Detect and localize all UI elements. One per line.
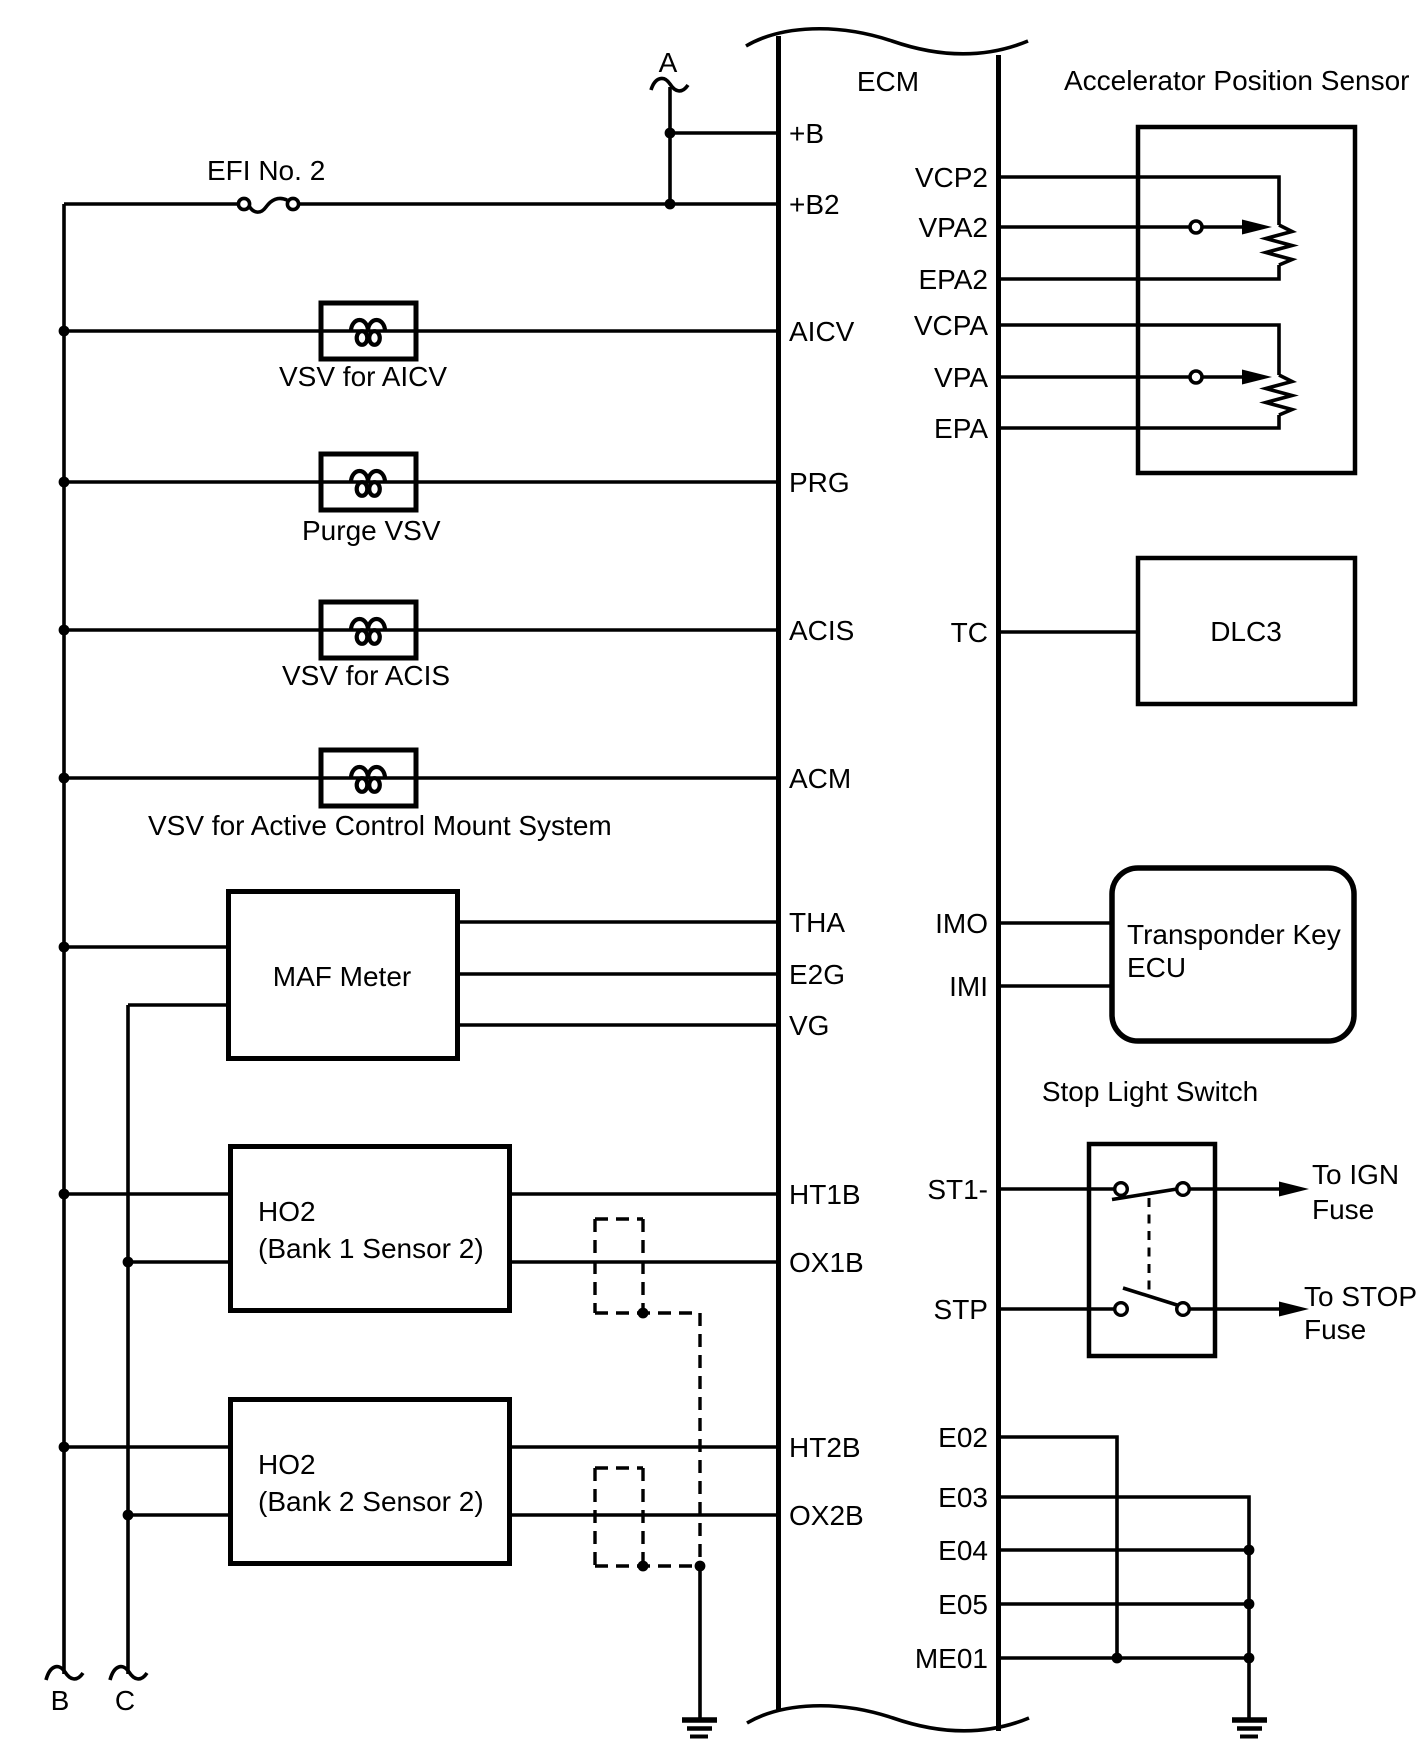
- svg-text:ACM: ACM: [789, 763, 851, 794]
- junction on bus B at ACIS: [59, 625, 70, 636]
- fuse EFI No. 2: [238, 198, 249, 209]
- wire E05: [998, 1602, 1249, 1606]
- wire VG: [458, 1023, 779, 1027]
- junction on bus B at HT2B: [59, 1442, 70, 1453]
- switch contact ST1- right: [1177, 1183, 1190, 1196]
- junction ME01-E03: [1244, 1653, 1255, 1664]
- wire from node A down to +B2: [668, 87, 672, 204]
- potentiometer APS1 resistor: [1266, 375, 1292, 415]
- svg-text:Fuse: Fuse: [1312, 1194, 1374, 1225]
- svg-text:E2G: E2G: [789, 959, 845, 990]
- svg-text:VSV for ACIS: VSV for ACIS: [282, 660, 450, 691]
- wire OX1B to ECM: [510, 1260, 779, 1264]
- wire shield drain to ground: [698, 1566, 702, 1718]
- svg-text:OX2B: OX2B: [789, 1500, 864, 1531]
- wire VPA2 wiper: [998, 225, 1190, 229]
- svg-text:VCPA: VCPA: [914, 310, 988, 341]
- svg-text:ECU: ECU: [1127, 952, 1186, 983]
- wire to IGN fuse with arrow: [1190, 1187, 1280, 1191]
- svg-text:THA: THA: [789, 907, 845, 938]
- junction on bus B at HT1B: [59, 1189, 70, 1200]
- wire OX2B to ECM: [510, 1513, 779, 1517]
- svg-text:E03: E03: [938, 1482, 988, 1513]
- ECM right border line: [996, 55, 1001, 1731]
- switch contact ST1- left: [1115, 1183, 1128, 1196]
- potentiometer APS2 resistor: [1266, 225, 1292, 265]
- Purge VSV solenoid V2: [321, 454, 416, 510]
- svg-text:Fuse: Fuse: [1304, 1314, 1366, 1345]
- junction at +B: [665, 128, 676, 139]
- wire ACM: [64, 776, 779, 780]
- wire THA: [458, 920, 779, 924]
- wire MAF ground to bus C: [128, 1003, 228, 1007]
- svg-text:ECM: ECM: [857, 66, 919, 97]
- svg-text:+B2: +B2: [789, 189, 840, 220]
- wire VCPA: [998, 325, 1279, 375]
- node B break squiggle: [46, 1667, 83, 1680]
- ECM torn bottom edge wave: [747, 1706, 1029, 1731]
- svg-text:HT1B: HT1B: [789, 1179, 861, 1210]
- wire EPA2: [998, 265, 1279, 279]
- wire OX2B from bus C: [128, 1513, 230, 1517]
- svg-text:VPA2: VPA2: [918, 212, 988, 243]
- ECM left border line: [776, 36, 781, 1710]
- VSV for Active Control Mount System solenoid V4: [321, 750, 416, 806]
- svg-text:IMO: IMO: [935, 908, 988, 939]
- svg-text:VCP2: VCP2: [915, 162, 988, 193]
- svg-text:VG: VG: [789, 1010, 829, 1041]
- svg-text:HT2B: HT2B: [789, 1432, 861, 1463]
- wire E03: [998, 1497, 1249, 1718]
- svg-text:(Bank 2 Sensor 2): (Bank 2 Sensor 2): [258, 1486, 484, 1517]
- junction on bus B at MAF: [59, 942, 70, 953]
- svg-text:B: B: [51, 1685, 70, 1716]
- junction shield 2: [638, 1561, 649, 1572]
- wire +B2: [64, 202, 238, 206]
- wire HT2B from bus B: [64, 1445, 230, 1449]
- svg-text:MAF Meter: MAF Meter: [273, 961, 411, 992]
- wire to STOP fuse with arrow: [1190, 1307, 1280, 1311]
- junction at +B2: [665, 199, 676, 210]
- VSV for ACIS solenoid V3: [321, 602, 416, 658]
- svg-text:HO2: HO2: [258, 1449, 316, 1480]
- wire TC: [998, 630, 1138, 634]
- wire OX1B from bus C: [128, 1260, 230, 1264]
- wire EPA: [998, 415, 1279, 428]
- junction on bus B at ACM: [59, 773, 70, 784]
- svg-text:E04: E04: [938, 1535, 988, 1566]
- junction on bus C at OX2B: [123, 1510, 134, 1521]
- svg-text:VPA: VPA: [934, 362, 988, 393]
- ground for shields: [682, 1717, 717, 1723]
- svg-text:Stop Light Switch: Stop Light Switch: [1042, 1076, 1258, 1107]
- wire ST1-: [998, 1187, 1114, 1191]
- wire AICV: [64, 329, 779, 333]
- wire VCP2: [998, 177, 1279, 225]
- svg-text:+B: +B: [789, 118, 824, 149]
- svg-text:To STOP: To STOP: [1304, 1281, 1417, 1312]
- svg-text:(Bank 1 Sensor 2): (Bank 1 Sensor 2): [258, 1233, 484, 1264]
- svg-text:VSV for Active Control Mount S: VSV for Active Control Mount System: [148, 810, 612, 841]
- svg-text:Purge VSV: Purge VSV: [302, 515, 441, 546]
- wire bus C: [126, 1005, 130, 1674]
- junction E05: [1244, 1599, 1255, 1610]
- Transponder Key ECU box: [1112, 868, 1354, 1041]
- svg-text:A: A: [659, 47, 678, 78]
- wiper contact APS1: [1190, 371, 1202, 383]
- svg-text:Accelerator Position Sensor: Accelerator Position Sensor: [1064, 65, 1410, 96]
- VSV for AICV solenoid V1: [321, 303, 416, 359]
- shield drain dashed link: [698, 1313, 701, 1566]
- ground for ECM E lines: [1232, 1717, 1267, 1723]
- svg-text:OX1B: OX1B: [789, 1247, 864, 1278]
- svg-text:E05: E05: [938, 1589, 988, 1620]
- wire HT1B from bus B: [64, 1192, 230, 1196]
- wire left bus B: [62, 204, 66, 1674]
- wire VPA wiper: [998, 375, 1190, 379]
- MAF Meter box: [229, 892, 458, 1059]
- junction E04: [1244, 1545, 1255, 1556]
- switch link (dashed): [1148, 1198, 1151, 1292]
- svg-text:VSV for AICV: VSV for AICV: [279, 361, 447, 392]
- junction on bus B at AICV: [59, 326, 70, 337]
- svg-text:DLC3: DLC3: [1210, 616, 1282, 647]
- shield of OX2B (dashed): [595, 1466, 643, 1469]
- HO2 sensor bank 1 box: [231, 1147, 510, 1311]
- HO2 sensor bank 2 box: [231, 1400, 510, 1564]
- wire HT2B to ECM: [510, 1445, 779, 1449]
- Accelerator Position Sensor box: [1138, 127, 1355, 473]
- wire ME01: [998, 1656, 1249, 1660]
- wire MAF supply from bus B: [64, 945, 228, 949]
- svg-text:Transponder Key: Transponder Key: [1127, 919, 1341, 950]
- svg-text:STP: STP: [934, 1294, 988, 1325]
- junction on bus B at PRG: [59, 477, 70, 488]
- node A break squiggle: [651, 78, 688, 90]
- wire +B: [670, 131, 779, 135]
- svg-text:HO2: HO2: [258, 1196, 316, 1227]
- svg-text:C: C: [115, 1685, 135, 1716]
- wire E02: [998, 1437, 1117, 1658]
- svg-text:IMI: IMI: [949, 971, 988, 1002]
- svg-text:EPA: EPA: [934, 413, 988, 444]
- wire E2G: [458, 972, 779, 976]
- switch contact STP left: [1115, 1303, 1128, 1316]
- junction shield 1: [638, 1308, 649, 1319]
- ECM torn top edge wave: [746, 29, 1028, 54]
- wire E04: [998, 1548, 1249, 1552]
- wire IMO: [998, 921, 1112, 925]
- switch blade STP: [1123, 1288, 1177, 1305]
- wire PRG: [64, 480, 779, 484]
- wire STP: [998, 1307, 1114, 1311]
- wire HT1B to ECM: [510, 1192, 779, 1196]
- wire IMI: [998, 984, 1112, 988]
- switch contact STP right: [1177, 1303, 1190, 1316]
- svg-text:ST1-: ST1-: [927, 1174, 988, 1205]
- svg-text:PRG: PRG: [789, 467, 850, 498]
- svg-text:EPA2: EPA2: [918, 264, 988, 295]
- svg-text:ME01: ME01: [915, 1643, 988, 1674]
- svg-text:To IGN: To IGN: [1312, 1159, 1399, 1190]
- svg-text:TC: TC: [951, 617, 988, 648]
- DLC3 box: [1138, 558, 1355, 704]
- svg-text:ACIS: ACIS: [789, 615, 854, 646]
- junction shield drain: [695, 1561, 706, 1572]
- wire ACIS: [64, 628, 779, 632]
- wiper contact APS2: [1190, 221, 1202, 233]
- Stop Light Switch box: [1089, 1144, 1215, 1356]
- shield of OX1B (dashed): [595, 1217, 643, 1220]
- junction ME01-E02: [1112, 1653, 1123, 1664]
- svg-text:EFI No. 2: EFI No. 2: [207, 155, 325, 186]
- switch blade ST1-: [1112, 1189, 1177, 1200]
- junction on bus C at OX1B: [123, 1257, 134, 1268]
- svg-text:E02: E02: [938, 1422, 988, 1453]
- node C break squiggle: [110, 1667, 147, 1680]
- svg-text:AICV: AICV: [789, 316, 855, 347]
